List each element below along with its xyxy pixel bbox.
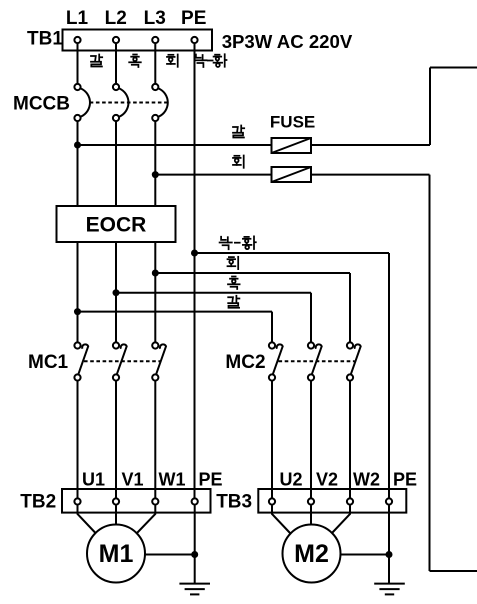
svg-text:V1: V1 — [121, 470, 143, 490]
svg-text:W2: W2 — [353, 470, 380, 490]
svg-text:EOCR: EOCR — [86, 213, 147, 236]
svg-text:PE: PE — [393, 470, 417, 490]
svg-text:U1: U1 — [82, 470, 105, 490]
svg-text:3P3W AC 220V: 3P3W AC 220V — [222, 31, 353, 52]
svg-text:TB1: TB1 — [27, 28, 63, 49]
svg-text:M2: M2 — [294, 540, 329, 568]
svg-text:U2: U2 — [279, 470, 302, 490]
svg-text:PE: PE — [181, 8, 206, 29]
svg-text:L3: L3 — [144, 8, 166, 29]
svg-text:V2: V2 — [316, 470, 338, 490]
svg-text:M1: M1 — [99, 540, 134, 568]
svg-text:L2: L2 — [105, 8, 127, 29]
svg-text:L1: L1 — [66, 8, 89, 29]
svg-text:W1: W1 — [159, 470, 186, 490]
svg-text:PE: PE — [198, 470, 222, 490]
svg-text:MC1: MC1 — [28, 352, 69, 373]
svg-text:MCCB: MCCB — [13, 94, 70, 115]
svg-text:FUSE: FUSE — [270, 112, 315, 131]
svg-text:TB3: TB3 — [216, 492, 252, 513]
svg-text:MC2: MC2 — [225, 352, 265, 373]
svg-text:TB2: TB2 — [20, 492, 56, 513]
